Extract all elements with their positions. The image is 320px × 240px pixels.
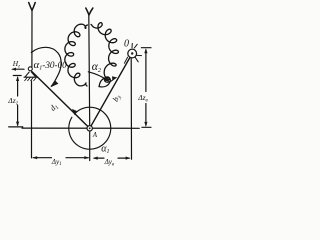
svg-text:α2: α2 — [92, 61, 101, 74]
svg-text:Δzв: Δzв — [137, 93, 148, 104]
svg-text:Δz1: Δz1 — [7, 96, 18, 107]
svg-text:A: A — [92, 131, 98, 139]
svg-text:Δy1: Δy1 — [51, 158, 62, 167]
svg-text:d1: d1 — [48, 101, 60, 113]
svg-text:α1: α1 — [101, 143, 109, 155]
svg-text:Δyв: Δyв — [104, 158, 115, 167]
svg-text:b3: b3 — [111, 93, 124, 104]
svg-text:0: 0 — [124, 38, 129, 49]
svg-text:Hг: Hг — [12, 59, 20, 70]
svg-text:α1-30-00: α1-30-00 — [34, 59, 68, 72]
